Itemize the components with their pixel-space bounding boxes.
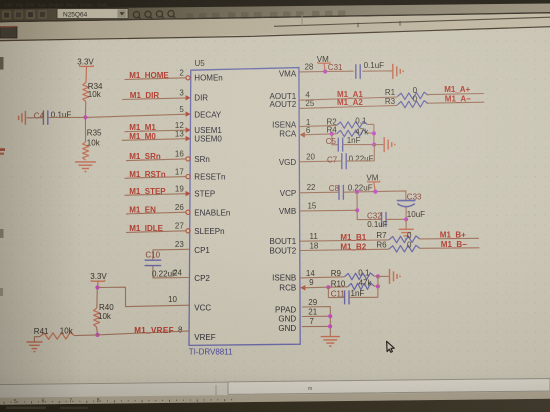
wire PPAD pin29 xyxy=(302,307,330,336)
ground right of C31 xyxy=(392,64,394,79)
node 3.3V VCC junction xyxy=(95,285,99,289)
wire R34 to node xyxy=(84,102,86,118)
pin RCA arrow xyxy=(300,132,305,137)
node VM C31 junction xyxy=(323,69,327,73)
wire GND pin21 xyxy=(302,315,330,317)
wire net M1_RSTn pin17 xyxy=(125,177,186,179)
wire C7 up to ground node xyxy=(346,145,374,162)
wire R41 to VREF node xyxy=(75,334,98,337)
mouse cursor xyxy=(387,341,395,352)
wire GND pin7 xyxy=(302,325,330,327)
resistor R40 xyxy=(94,308,100,327)
wire R7 to M1_B+ xyxy=(420,237,479,240)
wire net M1_EN pin26 xyxy=(126,212,186,214)
vertical R9 R10 C11 tie xyxy=(377,276,379,297)
toolbar icon 4 xyxy=(38,10,47,19)
resistor R6 xyxy=(389,245,420,252)
wire VCP pin22 xyxy=(299,191,339,194)
node R4 vertical junction xyxy=(372,131,376,135)
resistor R3 xyxy=(397,101,428,108)
wire BOUT2 pin18 xyxy=(300,249,389,250)
toolbar separator line xyxy=(0,13,550,22)
capacitor C4 xyxy=(42,110,44,124)
capacitor C5 xyxy=(337,138,339,152)
wire VMB riser xyxy=(356,192,358,210)
capacitor C31 xyxy=(355,64,357,79)
node RCB C11 branch xyxy=(326,285,330,289)
wire R6 to M1_B- xyxy=(420,247,480,250)
wire C4 to ground xyxy=(27,117,44,119)
menu bar xyxy=(0,0,550,10)
wire net M1_HOME pin2 xyxy=(125,78,186,80)
resistor R35 xyxy=(83,142,89,160)
wire BOUT1 pin11 xyxy=(300,240,389,241)
ground below C33 xyxy=(399,228,414,230)
node C5 ground junction xyxy=(372,143,376,147)
wire R10 to junction xyxy=(374,285,378,287)
resistor R34 xyxy=(83,83,89,102)
left edge artifact red xyxy=(0,148,5,151)
wire VGD pin20 xyxy=(299,160,342,163)
toolbar icon 1 xyxy=(2,11,11,20)
left edge artifact 2 xyxy=(0,229,4,238)
left edge artifact 3 xyxy=(0,288,3,296)
node GND21 junction xyxy=(328,314,332,318)
resistor R9 xyxy=(345,273,375,280)
wire R3 to M1_A- xyxy=(428,102,484,103)
status strip xyxy=(0,392,550,405)
wire R9 to junction xyxy=(374,275,378,277)
wire C33 to ground node xyxy=(405,207,407,219)
pin RCB arrow xyxy=(300,285,305,290)
wire AOUT2 pin25 xyxy=(299,105,397,108)
ground right of C5 xyxy=(383,137,385,152)
second toolbar strip xyxy=(0,14,550,42)
capacitor C11 xyxy=(344,290,346,304)
ground below R41 xyxy=(26,341,42,343)
node DECAY junction xyxy=(83,115,87,119)
wire to C5 xyxy=(332,144,339,146)
ground right of R9 xyxy=(389,269,391,284)
status ruler ticks xyxy=(3,402,5,404)
wire AOUT1 pin4 xyxy=(299,97,397,100)
wire VMA pin28 xyxy=(299,71,325,73)
toolbar xyxy=(0,4,550,23)
wire junction to ground A xyxy=(374,144,383,146)
window edge line lower xyxy=(0,27,550,41)
wire junction to ground C xyxy=(378,275,389,277)
vertical R2 R4 C5 tie xyxy=(373,124,375,144)
wire C32 to ground node xyxy=(386,218,406,220)
wire VM to C31 xyxy=(325,70,353,72)
node VREF junction xyxy=(95,333,99,337)
wire net M1_M0 pin13 xyxy=(122,139,187,141)
left edge artifact 1 xyxy=(0,57,4,70)
toolbar combo box N25Q64 xyxy=(57,9,128,19)
toolbar icon 3 xyxy=(26,10,35,19)
wire node to R35 xyxy=(84,117,86,141)
panel tab top-left xyxy=(0,27,17,39)
wire net M1_M1 pin12 xyxy=(125,130,188,132)
wire net M1_VREF pin8 xyxy=(98,331,190,335)
window edge line upper xyxy=(274,17,550,26)
ground below PPAD xyxy=(321,336,340,338)
capacitor C8 xyxy=(338,185,340,200)
wire VMB down to C32 xyxy=(357,210,381,219)
wire net M1_SRn pin16 xyxy=(126,159,186,161)
node VMB riser junction xyxy=(355,190,359,194)
node VMB corner xyxy=(355,208,359,212)
ground below R35 xyxy=(75,161,96,163)
resistor R7 xyxy=(389,236,420,243)
wire R40 to VREF node xyxy=(96,327,99,335)
wire RCB pin9 xyxy=(303,286,329,289)
node R9 ground junction xyxy=(376,274,380,278)
node R10 vertical junction xyxy=(376,284,380,288)
toolbar misc icons xyxy=(186,13,194,21)
wire C11 to vertical xyxy=(349,296,378,298)
op chip U5 body TI-DRV8811 xyxy=(189,68,300,346)
wire R1 to M1_A+ xyxy=(428,94,484,95)
wire ISENA pin1 xyxy=(299,125,337,126)
capacitor C33 xyxy=(397,200,416,202)
wire C5 branch down xyxy=(331,134,333,145)
wire VM rail xyxy=(344,191,406,200)
ground left of C4 xyxy=(24,111,26,125)
scrollbar divider xyxy=(215,385,217,397)
wire net M1_STEP pin19 xyxy=(125,194,188,196)
wire R4 to vertical xyxy=(367,132,374,134)
capacitor C7 xyxy=(341,153,343,169)
wire node to R40 xyxy=(96,288,99,309)
node RCA C5 branch xyxy=(330,132,334,136)
resistor R4 xyxy=(337,130,368,137)
wire ISENB pin14 xyxy=(300,277,345,278)
wire VMB pin15 xyxy=(300,209,357,212)
wire R2 to vertical xyxy=(367,123,374,125)
wire CP1 pin23 xyxy=(153,249,189,260)
node GND7 junction xyxy=(328,324,332,328)
wire CP2 pin24 xyxy=(153,266,189,278)
wire C5 to junction xyxy=(343,144,374,146)
bottom dark band xyxy=(0,399,550,412)
wire C31 to ground xyxy=(362,70,392,72)
wire DECAY pin5 xyxy=(85,114,187,117)
resistor R2 xyxy=(337,121,368,128)
resistor R41 xyxy=(40,333,75,340)
wire down to ground B xyxy=(405,219,407,229)
toolbar zoom icons xyxy=(133,12,139,18)
node VM stub junction xyxy=(373,190,377,194)
wire C4 to node xyxy=(48,116,85,118)
wire RCA pin6 xyxy=(302,133,332,136)
toolbar icon 2 xyxy=(14,10,23,19)
wire net M1_DIR pin3 xyxy=(122,98,187,100)
wire C11 branch down xyxy=(327,287,329,297)
capacitor C32 xyxy=(381,212,383,227)
horizontal scrollbar track xyxy=(0,379,550,398)
wire VCC pin10 xyxy=(98,287,190,306)
resistor R10 xyxy=(348,283,374,290)
node C32 C33 ground junction xyxy=(404,217,408,221)
wire net M1_IDLE pin27 xyxy=(126,231,186,233)
wire ground to R41 xyxy=(34,337,40,342)
resistor R1 xyxy=(397,92,428,99)
wire to C11 xyxy=(328,297,344,299)
capacitor C10 xyxy=(145,259,162,261)
horizontal scrollbar thumb xyxy=(228,379,550,395)
